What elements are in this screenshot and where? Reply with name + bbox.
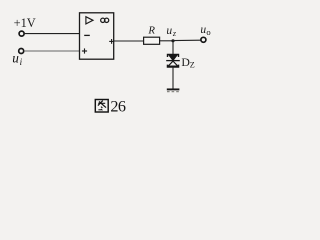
caption character 图 (drawn) xyxy=(95,100,108,113)
svg-text:+1V: +1V xyxy=(14,16,36,30)
wire ui terminal to op-amp non-inverting input xyxy=(24,50,80,52)
svg-text:R: R xyxy=(147,25,155,37)
upper triangle (filled, pointing down) xyxy=(169,55,177,60)
ground xyxy=(167,88,180,90)
svg-text:26: 26 xyxy=(110,97,125,115)
resistor R xyxy=(144,37,160,44)
svg-text:u: u xyxy=(12,51,19,66)
node uz junction dot xyxy=(171,39,174,42)
output polarity label + xyxy=(109,40,114,42)
background paper xyxy=(0,0,229,120)
top cathode bar with bent ends xyxy=(168,54,179,57)
inverting input label - xyxy=(84,34,90,36)
zener diode DZ (bidirectional) xyxy=(166,54,180,67)
terminal +1V input xyxy=(19,31,24,36)
wire node uz down to zener xyxy=(172,41,174,55)
wire resistor to node uz xyxy=(160,40,173,42)
svg-text:o: o xyxy=(206,27,210,37)
terminal uo output xyxy=(201,37,206,42)
wire op-amp output to resistor xyxy=(114,40,144,42)
middle bar arms xyxy=(166,60,180,62)
lower triangle (open, pointing up) xyxy=(168,61,178,66)
non-inverting input label + xyxy=(82,50,87,52)
bottom cathode bar with bent ends xyxy=(168,65,179,67)
terminal ui input xyxy=(19,49,24,54)
op-amp U1 body xyxy=(80,13,114,59)
op-amp gain triangle symbol xyxy=(86,17,93,24)
wire node uz to output terminal xyxy=(173,39,201,41)
wire zener to ground xyxy=(172,67,174,89)
wire +1V terminal to op-amp inverting input xyxy=(25,33,80,35)
svg-text:u: u xyxy=(166,25,172,37)
svg-text:Z: Z xyxy=(190,61,195,70)
op-amp infinity gain symbol xyxy=(101,18,105,22)
